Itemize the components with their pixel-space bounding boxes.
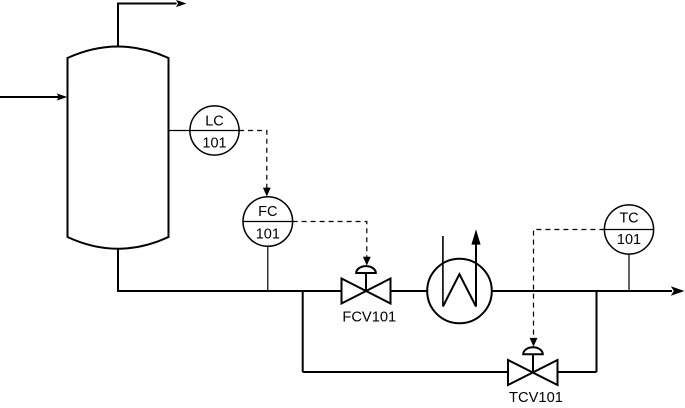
valve TCV101 actuator stem (532, 354, 534, 372)
svg-text:101: 101 (617, 232, 641, 248)
heat exchanger E1 tube zigzag (443, 244, 476, 307)
wire: bypass downcomer from main line (302, 291, 304, 372)
instrument bubble TC101 chord (604, 229, 653, 231)
wire: main process line (heat exchanger to outlet) (492, 290, 672, 292)
wire: bypass line TCV101 to riser (558, 371, 597, 373)
instrument bubble FC101 circle (243, 197, 293, 247)
svg-text:TC: TC (619, 211, 638, 227)
wire: main process line (vessel to FCV101) (117, 290, 342, 292)
arrowhead: LC101 signal into FC101 (263, 188, 271, 197)
vessel V1 (vertical drum / column) (68, 47, 169, 249)
instrument bubble LC101 chord (190, 130, 239, 132)
valve FCV101 body (342, 279, 391, 304)
wire: bypass riser to main line (596, 290, 598, 372)
wire: feed line into vessel (0, 96, 59, 98)
arrowhead: feed into vessel (57, 93, 67, 100)
signal: FC101 to FCV101 dashed (293, 222, 367, 259)
signal: LC101 to FC101 dashed (239, 131, 267, 191)
svg-text:FCV101: FCV101 (342, 310, 396, 326)
arrowhead: overhead line exit (176, 0, 187, 7)
valve TCV101 body (508, 360, 558, 385)
label TC101 tag text (617, 211, 641, 249)
signal: TC101 to TCV101 dashed (534, 230, 605, 341)
label LC101 tag text (202, 114, 226, 152)
instrument bubble FC101 chord (243, 221, 293, 223)
arrowhead: coolant outlet up (471, 229, 480, 244)
instrument bubble LC101 circle (190, 106, 239, 155)
wire: overhead vapor line from vessel top (118, 4, 177, 48)
label FC101 tag text (256, 204, 280, 243)
valve FCV101 actuator stem (365, 273, 367, 291)
wire: main process line (FCV101 to heat exchanger) (391, 290, 428, 292)
instrument bubble TC101 circle (604, 205, 653, 254)
svg-text:TCV101: TCV101 (509, 390, 563, 406)
arrowhead: FC101 signal onto FCV101 (363, 257, 371, 266)
wire: TC101 to main line sensing line (628, 254, 630, 290)
svg-text:FC: FC (258, 204, 277, 220)
arrowhead: main line outlet (671, 286, 685, 295)
svg-text:101: 101 (202, 136, 226, 152)
svg-text:101: 101 (256, 226, 280, 242)
heat exchanger E1 coolant inlet line (442, 236, 444, 307)
heat exchanger E1 shell (427, 259, 492, 324)
wire: bypass line to TCV101 (303, 371, 508, 373)
wire: FC101 to main line sensing line (267, 246, 269, 290)
valve FCV101 actuator diaphragm (356, 266, 376, 273)
wire: vessel bottoms outlet down to main line (117, 249, 119, 291)
valve TCV101 actuator diaphragm (523, 347, 543, 354)
wire: vessel to LC101 sensing line (169, 130, 190, 132)
arrowhead: TC101 signal onto TCV101 (530, 338, 538, 347)
svg-text:LC: LC (205, 114, 224, 130)
